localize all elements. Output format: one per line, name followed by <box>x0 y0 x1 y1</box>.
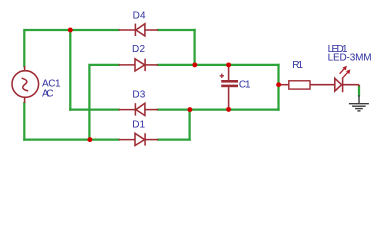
svg-text:D2: D2 <box>132 44 145 55</box>
svg-text:C1: C1 <box>239 80 251 91</box>
svg-text:D4: D4 <box>133 11 146 22</box>
svg-text:R1: R1 <box>292 60 303 71</box>
svg-text:LED-3MM: LED-3MM <box>328 53 372 64</box>
svg-text:AC: AC <box>42 89 54 100</box>
svg-text:D3: D3 <box>132 89 145 100</box>
svg-text:D1: D1 <box>132 119 145 130</box>
